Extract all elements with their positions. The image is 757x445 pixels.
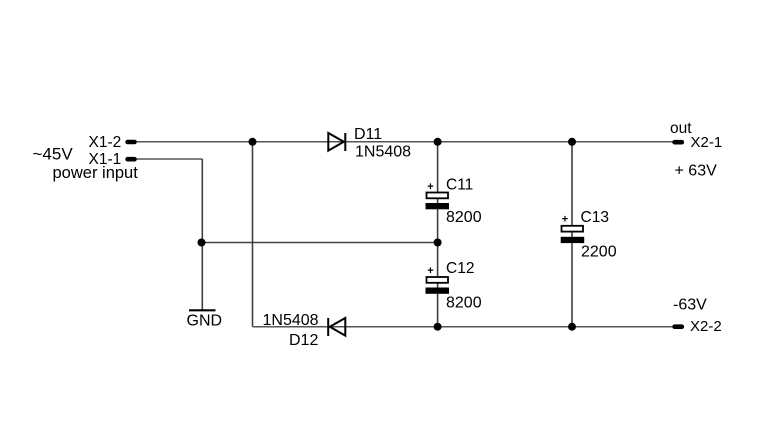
svg-text:8200: 8200 xyxy=(446,294,482,311)
wire: X1-1 stub to vertical xyxy=(136,158,202,160)
terminal X1-1 xyxy=(128,157,135,162)
capacitor C13 xyxy=(561,214,585,244)
wire: middle rail from GND node to capacitor midpoint xyxy=(202,242,438,244)
svg-text:out: out xyxy=(670,120,692,137)
svg-text:-63V: -63V xyxy=(673,297,707,314)
svg-text:GND: GND xyxy=(187,312,223,329)
capacitor C12 xyxy=(426,265,450,294)
diode D11 xyxy=(328,133,345,151)
terminal X2-1 xyxy=(675,140,682,145)
svg-text:~45V: ~45V xyxy=(33,144,74,163)
svg-text:D11: D11 xyxy=(354,126,382,143)
capacitor C11 xyxy=(426,181,450,209)
node B: top junction above C11 xyxy=(434,138,442,146)
ground xyxy=(189,309,216,311)
svg-text:+: + xyxy=(427,181,433,193)
svg-text:power input: power input xyxy=(53,164,139,182)
svg-text:+: + xyxy=(427,265,433,277)
wire: vertical through C11 and C12 xyxy=(437,142,439,327)
wire: bottom rail from corner to X2-2 xyxy=(253,326,674,328)
svg-text:X2-2: X2-2 xyxy=(690,318,722,335)
svg-text:+ 63V: + 63V xyxy=(675,162,718,179)
terminal X1-2 xyxy=(128,140,135,145)
node C: midpoint junction of C11/C12 xyxy=(434,239,442,247)
svg-text:8200: 8200 xyxy=(446,209,482,226)
svg-text:2200: 2200 xyxy=(581,244,617,261)
wire: top rail from X1-2 to X2-1 xyxy=(136,141,673,143)
svg-text:C13: C13 xyxy=(581,209,609,226)
node F: top junction above C13 xyxy=(568,138,576,146)
wire: vertical from top node down to bottom rail xyxy=(252,142,254,327)
svg-text:X2-1: X2-1 xyxy=(691,134,723,151)
node A: top junction above vertical feed xyxy=(249,138,257,146)
diode D12 xyxy=(328,318,345,336)
svg-text:+: + xyxy=(562,214,568,226)
node D: junction at GND tap xyxy=(198,239,206,247)
svg-text:1N5408: 1N5408 xyxy=(263,312,319,329)
svg-text:C12: C12 xyxy=(446,260,474,277)
wire: vertical through C13 xyxy=(571,142,573,327)
svg-text:X1-2: X1-2 xyxy=(89,134,122,151)
wire: vertical X1-1 down to GND xyxy=(201,159,203,310)
node E: bottom junction below C12 xyxy=(434,323,442,331)
svg-text:D12: D12 xyxy=(289,332,318,349)
svg-text:C11: C11 xyxy=(446,177,473,194)
terminal X2-2 xyxy=(675,324,682,329)
svg-text:1N5408: 1N5408 xyxy=(355,144,411,161)
node G: bottom junction below C13 xyxy=(568,323,576,331)
